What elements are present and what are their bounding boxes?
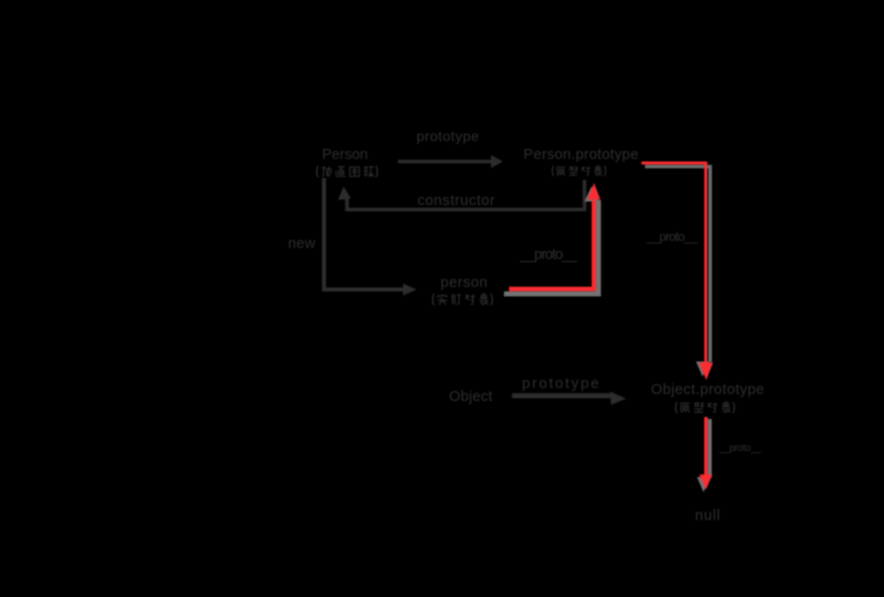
label prototype 2	[522, 377, 601, 392]
label __proto__ 3	[719, 444, 761, 454]
node Object.prototype	[651, 383, 765, 398]
node Person subtitle (构造函数)	[314, 165, 380, 178]
wire gray shadow of proto arrow 3	[697, 419, 711, 492]
label constructor	[418, 194, 496, 209]
label new	[288, 237, 316, 252]
svg defs for pseudo-CJK glyph labels	[0, 0, 1, 1]
wire prototype arrow (Object -> Object.prototype)	[512, 392, 626, 406]
wire new arrow (Person -> person)	[324, 178, 417, 296]
label __proto__ 2	[647, 231, 697, 244]
wire gray shadow of proto arrow 1	[504, 187, 599, 294]
node Person label prototype	[417, 129, 480, 143]
label __proto__ 1	[520, 248, 576, 263]
wire constructor arrow (Person.prototype -> Person)	[338, 180, 585, 210]
node Person	[322, 148, 368, 163]
node Object	[449, 390, 493, 405]
wire prototype arrow (Person -> Person.prototype)	[398, 155, 503, 168]
node Person.prototype subtitle (原型对象)	[550, 165, 608, 177]
node person	[441, 276, 488, 291]
node Object.prototype subtitle (原型对象)	[673, 401, 737, 414]
wire red proto arrow 3 (Object.prototype -> null)	[700, 417, 713, 490]
wire red proto arrow 1 (person -> Person.prototype)	[509, 183, 600, 289]
wire gray shadow of proto arrow 2	[645, 167, 710, 377]
node person subtitle (实例对象)	[430, 293, 495, 306]
wire red proto arrow 2 (Person.prototype -> Object.prototype)	[642, 163, 714, 380]
node Person.prototype	[524, 148, 639, 163]
node null	[695, 509, 721, 524]
